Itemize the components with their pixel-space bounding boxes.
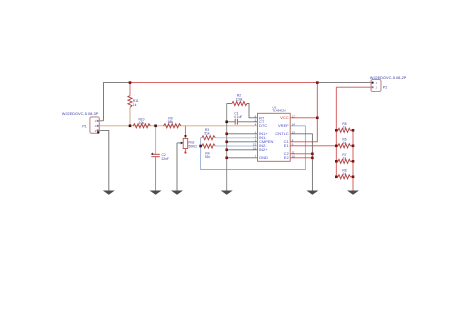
svg-text:E2: E2 [284,155,290,160]
wire bus stub GND pin [227,157,258,159]
svg-text:1k: 1k [343,172,347,176]
wire ground bus vertical [226,104,228,191]
junction bank R6 right [352,145,355,148]
svg-text:DTC: DTC [259,123,267,128]
wire bank left rail [335,87,337,177]
wire bus stub IN1+ [227,133,258,135]
svg-text:51k: 51k [205,155,211,159]
op-amp U1 TL494CN body [258,113,291,161]
svg-text:P2: P2 [383,85,387,89]
resistor R10 [133,124,150,128]
capacitor C2 [151,153,160,157]
connector P2 [371,80,381,92]
svg-text:TL494CN: TL494CN [272,109,285,113]
ground under P1 pin3 [103,191,115,195]
svg-text:VREF: VREF [278,123,289,128]
svg-text:51k: 51k [204,132,210,136]
ground under C2 [150,191,162,195]
wire CNTLC to ground [290,134,312,191]
wire main tan net P1 pin2 to DTC [99,125,257,127]
ground under gnd bus [221,191,233,195]
junction bank R5 right [352,129,355,132]
junction bank R7 left [335,160,338,163]
resistor R2 [227,101,258,117]
svg-text:WJ2EDGVC-5.08-2P: WJ2EDGVC-5.08-2P [370,75,407,80]
wire top rail gray left segment [104,83,131,121]
wire E1 to resistor bank [290,145,336,147]
svg-text:16: 16 [253,146,257,150]
junction bus CMPEN [225,141,228,144]
wire bus stub IN2+ [227,149,258,151]
svg-text:1k: 1k [343,141,347,145]
ground under pot wiper [171,191,183,195]
wire VCC vertical to rail and C1 pin [290,83,317,142]
svg-text:WJ2EDGVC-5.08-3P: WJ2EDGVC-5.08-3P [62,111,99,116]
wire bank right rail [352,130,354,190]
wire bus stub CMPEN [227,141,258,143]
svg-text:68k: 68k [168,120,174,124]
wire top rail gray right segment [317,82,371,84]
resistor R6 [336,144,353,148]
svg-text:GND: GND [259,155,268,160]
wire VCC red [290,117,317,119]
wire C2 to ground [155,157,157,191]
ground under CNTLC line [306,191,318,195]
svg-text:10k: 10k [139,121,145,125]
junction bank R6 left [335,145,338,148]
junction main C2 [154,125,157,128]
junction rail R11 top [129,81,132,84]
svg-text:1k: 1k [343,126,347,130]
svg-text:1k: 1k [343,157,347,161]
junction bank R5 left [335,129,338,132]
svg-text:VCC: VCC [280,115,289,120]
svg-text:IN2+: IN2+ [259,147,268,152]
junction blue R4 tap [199,145,202,148]
junction bus IN2+ [225,149,228,152]
capacitor C1 [227,119,258,125]
wire C2 pin stub [290,153,312,155]
junction rail VCC drop [316,81,319,84]
resistor R3 [201,136,258,140]
svg-text:14: 14 [292,122,296,126]
resistor R7 [336,159,353,163]
ground under bank right rail [347,191,359,195]
potentiometer Rn2 [177,126,188,154]
resistor R11 [128,83,132,126]
svg-text:110k: 110k [236,97,243,101]
junction bus GND pin [225,157,228,160]
resistor R9 [164,124,181,128]
resistor R4 [201,144,258,148]
wire blue VREF loop [201,126,306,170]
junction bank R7 right [352,160,355,163]
wire top rail red middle segment [130,82,317,84]
svg-text:22nF: 22nF [162,157,169,161]
junction bank R8 right [352,176,355,179]
junction CNTLC C2 [311,153,314,156]
svg-text:0.1uF: 0.1uF [234,115,242,119]
junction VCC pin [316,117,319,120]
svg-text:P1: P1 [82,124,86,128]
junction main R11 bottom [129,125,132,128]
wire P1 pin3 to ground [99,130,109,190]
wire E2 pin stub [290,157,312,159]
wire P2 pin2 red [336,86,371,88]
resistor R5 [336,128,353,132]
wire pot wiper to ground [176,143,178,191]
junction bank R8 left [335,176,338,179]
junction bus C1 [225,121,228,124]
svg-text:50KΩ: 50KΩ [189,144,198,148]
wire P1 pin1 stub [99,120,103,122]
wire C2 drop tan [155,126,157,154]
svg-text:E1: E1 [284,143,290,148]
junction CNTLC E2 [311,157,314,160]
junction bus IN1+ [225,133,228,136]
svg-text:1k: 1k [133,103,137,107]
svg-text:CNTLC: CNTLC [275,131,288,136]
connector P1 [90,117,99,133]
resistor R8 [336,175,353,179]
